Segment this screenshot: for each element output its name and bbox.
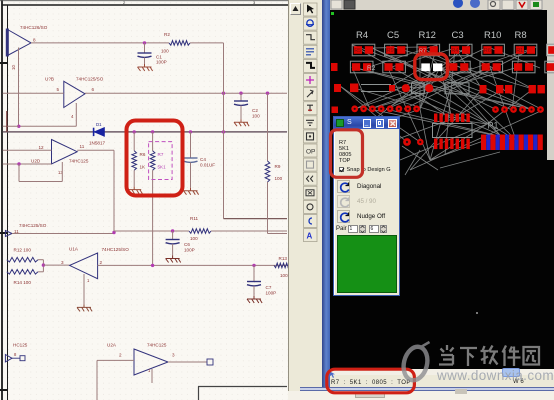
wire main bus net — [3, 131, 287, 133]
capacitor C4 0.01UF — [184, 132, 216, 188]
highlight box on dialog fields — [331, 130, 363, 178]
node C7 top — [252, 264, 255, 267]
pair spinners — [336, 226, 347, 232]
wire horizontal y218.6 — [224, 218, 288, 220]
off-page connector pin 11 — [5, 223, 46, 237]
capacitor C6 100P — [166, 231, 195, 256]
node junction C1 top — [143, 41, 146, 44]
ground under C7 — [247, 296, 262, 303]
bottom strip — [288, 391, 554, 400]
node R2/bus corner — [222, 92, 225, 95]
title block corner — [198, 387, 287, 400]
node C4 top — [189, 130, 192, 133]
resistor R13 100 — [274, 256, 291, 278]
status text W6 — [513, 379, 524, 385]
schematic drawing — [0, 0, 288, 400]
properties dialog window — [333, 116, 400, 296]
node pin4 feedback — [17, 125, 20, 128]
node R9 top — [266, 92, 269, 95]
scrollbar up button — [290, 3, 301, 15]
close button — [388, 119, 398, 128]
green status dot — [331, 12, 334, 15]
watermark text dang-xia-ruan-jian-yuan — [439, 345, 539, 366]
round pads near dialog — [403, 138, 424, 146]
wire to U1A — [43, 264, 69, 266]
capacitor C7 100P — [247, 265, 276, 296]
node U2D input — [17, 162, 20, 165]
status scrollbar strip — [330, 369, 554, 375]
off-page connector bottom — [5, 352, 25, 362]
schematic sheet border — [0, 0, 288, 400]
toolbar buttons — [303, 0, 318, 245]
minimize button — [363, 119, 371, 128]
PCB right gray panel strip — [547, 10, 554, 160]
wire R11 net — [114, 230, 189, 232]
row of discrete component pads — [350, 83, 545, 94]
op-amp U2A 74HC125 — [107, 343, 175, 376]
row of round through-hole pads — [351, 105, 544, 113]
ground under C1 — [138, 64, 153, 71]
terminal square — [207, 359, 213, 365]
node R6 top — [133, 130, 136, 133]
wire U1A pin1 to ground — [83, 274, 85, 304]
stray dot — [476, 312, 478, 314]
node R7 top — [151, 130, 154, 133]
status text R7:5K1:0805:TOP — [331, 380, 441, 386]
row of SMD pad pairs (second) with highlighted R7 — [350, 61, 554, 73]
wire U2B pin4 loop — [75, 103, 77, 126]
wire U2A input — [97, 359, 134, 361]
ground under U1A — [77, 304, 92, 311]
op-amp U1A 74HC125/SO — [61, 247, 129, 284]
wire stub left edge — [3, 125, 19, 127]
toolbar icon buttons (cropped) — [331, 0, 542, 10]
PCB top toolbar — [330, 0, 554, 10]
schematic scrollbar — [288, 0, 301, 400]
highlight box around R6/R7 on schematic — [127, 121, 183, 196]
field R7 — [339, 140, 346, 146]
scrollbar thumb — [502, 368, 520, 377]
diode D1 1N5817 — [89, 122, 106, 146]
node R12/R14 — [42, 263, 45, 266]
resistor R7 5K1 (selected) — [150, 132, 166, 266]
resistor R2 — [161, 32, 190, 54]
node net11 — [112, 231, 115, 234]
PCB black canvas — [330, 10, 554, 369]
window bottom border — [300, 387, 554, 392]
row of SMD pad pairs (top) — [352, 44, 554, 56]
op-amp U2D 74HC125 — [31, 140, 89, 176]
ground under C2 — [234, 119, 249, 126]
connector P1 striped pads — [481, 135, 543, 151]
wire R2 right to corner — [190, 42, 224, 44]
watermark logo O — [400, 342, 431, 383]
selection box around R7 — [149, 142, 173, 180]
wire off-sheet stub — [6, 111, 8, 132]
wire U2D pin13 loop — [61, 162, 63, 182]
ratsnest wires — [340, 44, 543, 175]
silkscreen labels R4 C5 R12 C3 R10 R8 — [356, 30, 527, 41]
status bar — [330, 369, 554, 387]
stray pad left edge — [332, 107, 339, 114]
capacitor C2 100 — [234, 93, 260, 119]
pan cursor icon — [327, 370, 339, 379]
resistor R6 1K — [132, 132, 146, 187]
wire vertical x223.5 — [223, 43, 225, 219]
resistor R14 100 — [7, 270, 38, 286]
nudge row — [337, 210, 350, 223]
checkbox snap — [339, 167, 345, 173]
field 5K1 — [339, 146, 349, 152]
wire U2A output — [168, 361, 207, 363]
PCB window left border — [322, 0, 331, 391]
highlight box around R7 footprint on PCB — [415, 54, 448, 80]
wire net from U3A pin8 to R2 — [31, 42, 169, 44]
header pin pads cluster — [433, 114, 473, 150]
preview pane green — [337, 235, 397, 293]
wire U2D output down — [77, 149, 114, 151]
field TOP — [339, 158, 350, 164]
wire U2D inputs — [3, 149, 52, 151]
resistor R12 100 — [7, 248, 38, 263]
wire U2B input — [3, 92, 64, 94]
node C6 top — [171, 229, 174, 232]
schematic editor background — [0, 0, 288, 400]
disabled row — [337, 195, 350, 208]
ground under R6 — [127, 187, 142, 194]
wire vertical feedback x18.5 — [18, 48, 20, 127]
capacitor C1 — [138, 43, 167, 65]
wire net 11 — [12, 233, 114, 235]
resistor R9 100 — [265, 93, 287, 233]
ground under C4 — [184, 188, 199, 195]
op-amp U3A 74HC126/SO — [7, 25, 47, 70]
ground under C6 — [166, 256, 181, 263]
wire U1A output net — [98, 264, 287, 266]
wire R12/R14 join — [38, 259, 43, 261]
maximize button — [376, 119, 384, 128]
tools panel strip — [301, 0, 322, 400]
wire U2A pin1 — [151, 369, 153, 383]
diagonal row — [337, 180, 350, 193]
node C2 top — [239, 92, 242, 95]
node R7 bottom — [151, 264, 154, 267]
op-amp U2B 74HC125/SO — [45, 77, 104, 120]
resistor R11 100 — [189, 216, 211, 241]
dialog title bar — [334, 117, 399, 129]
highlight box on status bar — [327, 369, 415, 393]
field 0805 — [339, 152, 351, 158]
svg-text:www.downxia.com: www.downxia.com — [436, 368, 554, 383]
title icon — [336, 119, 344, 127]
wire U2B output net — [85, 92, 287, 94]
